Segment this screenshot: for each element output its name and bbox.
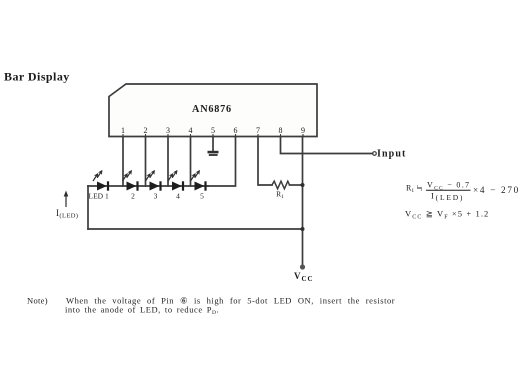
LED D5 (191, 171, 206, 191)
wire pin7 down to resistor R1 (258, 137, 272, 186)
svg-text:6: 6 (234, 126, 238, 135)
pin 4 tick (190, 134, 192, 137)
wire pin8 down and right to Input terminal (281, 137, 373, 154)
pin 9 tick (302, 134, 304, 137)
wire pin4 to LED4-LED5 junction (190, 137, 192, 187)
svg-text:2: 2 (144, 126, 148, 135)
wire pin2 to LED2-LED3 junction (145, 137, 147, 187)
svg-text:AN6876: AN6876 (192, 104, 232, 115)
pin 3 tick (167, 134, 169, 137)
svg-text:Bar Display: Bar Display (4, 70, 70, 84)
wire pin9 down to Vcc terminal (302, 137, 304, 265)
wire pin5 to ground (212, 137, 214, 152)
pin 8 tick (280, 134, 282, 137)
resistor R1 (272, 181, 290, 189)
svg-text:7: 7 (256, 126, 260, 135)
wire left rail down (87, 186, 89, 229)
pin 2 tick (145, 134, 147, 137)
svg-text:5: 5 (200, 192, 204, 201)
pin 5 tick (212, 134, 214, 137)
wire pin1 to LED1-LED2 junction (122, 137, 124, 187)
pin 6 tick (235, 134, 237, 137)
svg-text:9: 9 (301, 126, 305, 135)
node Vcc terminal (300, 264, 305, 269)
svg-text:×4 − 270: ×4 − 270 (473, 185, 520, 195)
wire R1 right end to pin9 rail (290, 184, 303, 186)
svg-text:R1 ≒: R1 ≒ (406, 184, 423, 195)
pin 7 tick (257, 134, 259, 137)
svg-text:3: 3 (166, 126, 170, 135)
LED D3 (146, 171, 161, 191)
wire bottom rail to Vcc node (88, 228, 303, 230)
svg-text:Input: Input (377, 149, 406, 160)
svg-text:I(LED): I(LED) (431, 191, 464, 202)
svg-text:2: 2 (131, 192, 135, 201)
node Input terminal (373, 152, 377, 156)
current arrow I(LED) (56, 191, 78, 220)
ground (pin 5) (208, 151, 219, 156)
LED D2 (123, 171, 138, 191)
svg-text:1: 1 (105, 192, 109, 201)
svg-text:1: 1 (121, 126, 125, 135)
wire pin6 down and left to LED5 cathode (208, 137, 236, 187)
svg-text:into the anode of LED, to redu: into the anode of LED, to reduce PD. (65, 305, 219, 317)
svg-text:I(LED): I(LED) (56, 208, 78, 220)
svg-text:VCC ≧ VF ×5 + 1.2: VCC ≧ VF ×5 + 1.2 (405, 209, 489, 221)
svg-text:4: 4 (176, 192, 180, 201)
svg-text:3: 3 (154, 192, 158, 201)
wire LED chain row (88, 185, 208, 187)
svg-text:5: 5 (211, 126, 215, 135)
svg-text:Note): Note) (27, 296, 48, 306)
svg-text:VCC: VCC (294, 271, 314, 283)
svg-text:4: 4 (189, 126, 193, 135)
IC U1 AN6876 outline (109, 84, 317, 137)
LED D4 (168, 171, 183, 191)
LED D1 (93, 171, 108, 191)
junction node bottom rail/Vcc rail (301, 227, 305, 231)
junction node R1/pin9 rail (301, 183, 305, 187)
wire pin3 to LED3-LED4 junction (167, 137, 169, 187)
formula R1 (406, 181, 520, 202)
svg-text:LED: LED (89, 192, 104, 201)
svg-text:R1: R1 (276, 190, 284, 200)
pin 1 tick (122, 134, 124, 137)
svg-text:8: 8 (279, 126, 283, 135)
